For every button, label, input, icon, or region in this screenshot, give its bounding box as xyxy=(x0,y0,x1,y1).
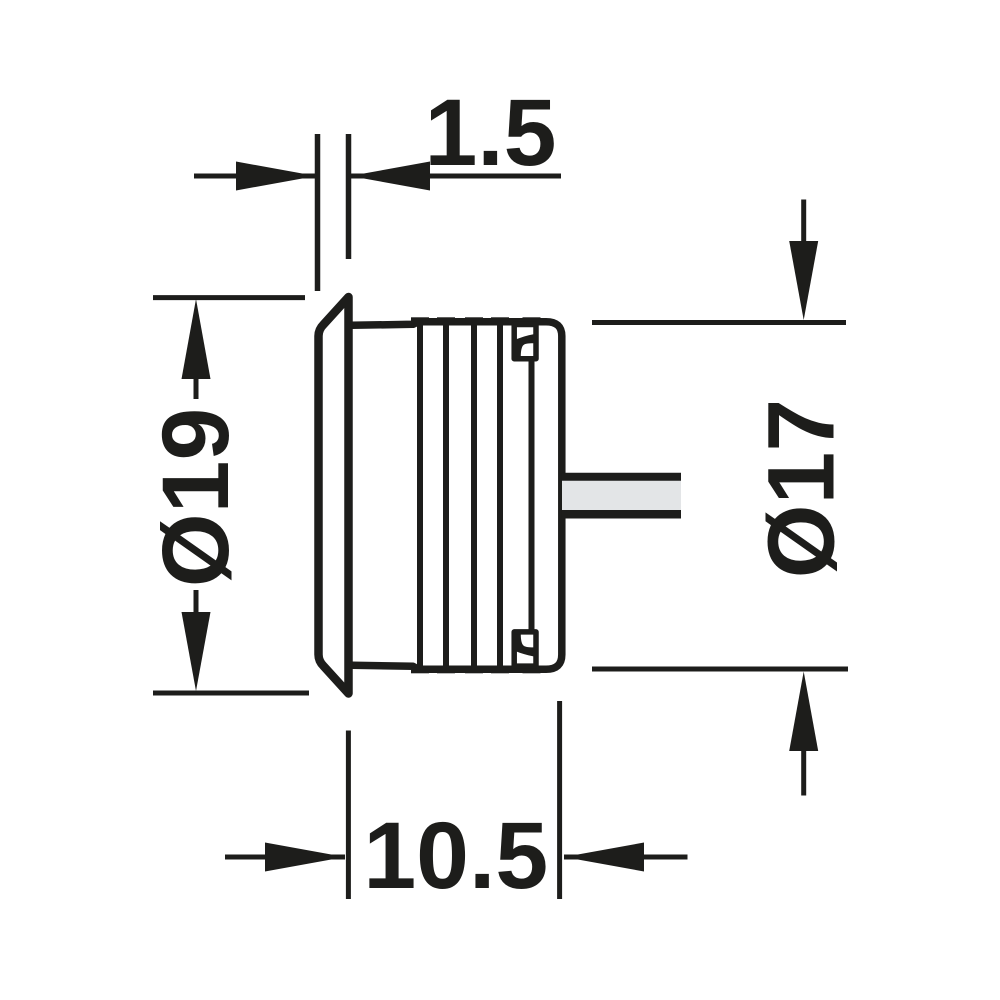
dim line 1.5 left xyxy=(194,174,316,179)
arrow 1.5 right-pointing xyxy=(236,162,316,191)
cable (grey) xyxy=(562,477,681,514)
arrow 10.5 left-pointing xyxy=(564,843,644,872)
dim line 10.5 right xyxy=(564,855,688,860)
dim line 1.5 right xyxy=(350,174,561,179)
svg-text:Ø17: Ø17 xyxy=(749,399,855,579)
clip window top xyxy=(514,325,536,359)
cable bottom edge xyxy=(562,510,681,519)
rib crest bumps bottom xyxy=(411,667,541,673)
extension line O17 top xyxy=(592,320,846,325)
rib 5 (between clip windows) xyxy=(529,360,535,631)
extension line O17 bottom xyxy=(592,667,848,672)
extension line O19 top xyxy=(153,295,305,300)
extension line 1.5 right xyxy=(346,134,352,259)
O17 dim line bottom xyxy=(801,750,806,796)
extension line 1.5 left xyxy=(315,134,321,291)
svg-text:Ø19: Ø19 xyxy=(143,408,249,588)
arrow 10.5 right-pointing xyxy=(265,843,345,872)
svg-text:10.5: 10.5 xyxy=(363,803,548,909)
O19 bottom arrow (down) xyxy=(182,612,211,691)
O17 dim line top xyxy=(801,200,806,245)
rib 2 xyxy=(443,322,449,669)
rib 1 xyxy=(417,322,423,669)
body outline xyxy=(352,322,562,670)
flange (trim ring cross-section) xyxy=(319,297,349,694)
rib 4 xyxy=(497,322,503,669)
rib crest bumps top xyxy=(411,317,541,323)
svg-text:1.5: 1.5 xyxy=(424,80,556,186)
arrow 1.5 left-pointing xyxy=(350,162,430,191)
extension line 10.5 left xyxy=(346,731,351,900)
clip window bottom (mirror) xyxy=(514,632,536,666)
clip hook bottom xyxy=(516,634,534,656)
extension line 10.5 right xyxy=(557,701,562,899)
rib 3 xyxy=(471,322,477,669)
O19 top arrow (up) xyxy=(182,299,211,379)
cable top edge xyxy=(562,473,681,481)
extension line O19 bottom xyxy=(153,691,309,696)
dim line 10.5 left xyxy=(225,855,345,860)
clip hook top xyxy=(516,334,534,356)
O17 top arrow (down) xyxy=(789,241,818,320)
O17 bottom arrow (up) xyxy=(789,672,818,752)
